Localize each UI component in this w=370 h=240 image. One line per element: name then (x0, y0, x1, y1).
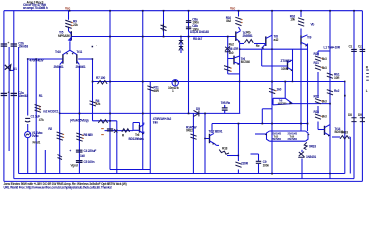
svg-text:D5: D5 (196, 107, 200, 111)
resistor R21 x193 (190, 134, 196, 139)
resistor R3 left collector (57, 132, 63, 140)
svg-text:R8 4k7: R8 4k7 (193, 37, 203, 41)
junction at 300,123 (300, 123, 302, 125)
junction at 271,173 (271, 173, 273, 175)
wire diode stub x181 (180, 37, 182, 54)
junction at 284,81 (284, 81, 286, 83)
svg-text:10R: 10R (334, 76, 340, 80)
wire x142.75 column (142, 11, 144, 170)
svg-text:68R: 68R (154, 89, 160, 93)
zener D2 on y113.4 (194, 110, 199, 116)
AC source squiggle (26, 133, 30, 135)
svg-text:(47uF/25Vbip): (47uF/25Vbip) (70, 118, 88, 122)
svg-text:MPSA56: MPSA56 (58, 34, 70, 38)
junction at 329,103 (329, 103, 331, 105)
resistor R10 y43.5 (244, 40, 253, 43)
wire x116.8 column (116, 121, 118, 174)
svg-text:an ampl 70.40dB h: an ampl 70.40dB h (23, 6, 48, 10)
junction at 142,10 (142, 10, 144, 12)
diode D4 output right (298, 152, 304, 158)
current source CCS mark (161, 24, 167, 31)
svg-text:Vb: Vb (311, 23, 315, 27)
svg-text:10m/63: 10m/63 (18, 45, 28, 49)
wire right collector / feedback leg (78, 66, 80, 174)
wire right base wire (78, 58, 92, 60)
junction at 142,81 (142, 81, 144, 83)
diode pair on x181 (179, 41, 183, 51)
diode D6 rail right2 (360, 117, 365, 122)
wire x318 resistor string (317, 51, 319, 56)
junction at 262,123 (262, 123, 264, 125)
junction at 59,113 (59, 113, 61, 115)
wire LTP tail (69, 41, 71, 50)
resistor R7 horizontal y82 (98, 81, 108, 85)
svg-text:0Vdc: 0Vdc (32, 134, 39, 138)
svg-text:D3,D4 1N4148: D3,D4 1N4148 (190, 30, 209, 34)
resistor R16 x318 lower (315, 99, 321, 104)
wire y108.8 stub (262, 108, 272, 110)
svg-text:R2: R2 (48, 127, 52, 131)
capacitor C11 x353 (351, 49, 357, 51)
wire rail 2 vertical (13, 11, 15, 179)
svg-text:R6 680: R6 680 (84, 133, 94, 137)
wire x238.4 down (237, 124, 239, 162)
transistor Tr6b x234 (234, 56, 240, 66)
transistor Q3 VAS x235.8 (236, 31, 241, 43)
svg-text:MJE350: MJE350 (278, 102, 287, 106)
resistor R6 horizontal y121 (98, 120, 107, 123)
svg-text:R22: R22 (314, 94, 320, 98)
junction at 109,10 (109, 10, 111, 12)
transistor Q2 LTP right (70, 50, 80, 64)
wire CCS column (163, 11, 165, 37)
wire input base wire (28, 58, 63, 60)
svg-text:a42: a42 (274, 38, 279, 42)
wire x150.25 column (149, 82, 151, 174)
wire y51 stub (318, 50, 330, 52)
capacitor C5 input coupling (25, 118, 30, 122)
svg-text:2N5401: 2N5401 (76, 65, 86, 69)
wire x227.7 diode-resistor column (227, 37, 229, 74)
wire cap leg B / ground left (18, 47, 20, 174)
junction at 35,58 (35, 58, 37, 60)
wire VAS collector column (238, 11, 240, 17)
capacitor C1 plates top (1, 44, 7, 46)
svg-text:10mA fc: 10mA fc (168, 86, 179, 90)
resistor R22 on x227.7 (224, 66, 231, 72)
svg-text:2N5401: 2N5401 (54, 65, 64, 69)
svg-text:Rc2: Rc2 (334, 89, 340, 93)
capacitor C9 pair lower (186, 27, 191, 29)
svg-text:Tr12 BD91: Tr12 BD91 (209, 130, 223, 134)
svg-text:R18: R18 (222, 146, 228, 150)
junction at 188,113 (188, 113, 190, 115)
junction at 238,155 (238, 155, 240, 157)
resistor R19 diag driver (219, 150, 229, 155)
resistor R15 x318 upper2 (315, 65, 321, 70)
AC source V1 circle (25, 132, 31, 138)
transistor Q5 x287.5 (285, 60, 293, 72)
svg-text:0R22: 0R22 (186, 129, 193, 133)
resistor R2 top Vcc (65, 20, 71, 28)
wire x353.2 column (353, 11, 355, 179)
capacitor C10 legs (224, 105, 226, 114)
svg-text:3k3: 3k3 (322, 115, 327, 119)
svg-text:220R: 220R (241, 161, 249, 165)
svg-text:10m/63: 10m/63 (18, 94, 28, 98)
wire D1 stub (9, 69, 14, 71)
wire bus B (14, 178, 354, 180)
capacitor C2 plates top (11, 44, 17, 46)
transistor Q7 big driver (273, 98, 293, 105)
junction at 204,138 (204, 138, 206, 140)
resistor R9 VAS collector (235, 17, 241, 25)
svg-text:L1 7uH+10R: L1 7uH+10R (324, 45, 341, 49)
wire top supply bus +V (4, 10, 363, 12)
svg-text:Tr10: Tr10 (55, 50, 61, 54)
junction at 92,58 (92, 58, 94, 60)
wire zener column (192, 113, 194, 173)
svg-text:D8: D8 (348, 113, 352, 117)
transistor Q11 driver x209 (205, 133, 216, 145)
junction at 238,123 (238, 123, 240, 125)
wire emitter down from Q2 / x239.6 long (239, 41, 241, 113)
resistor R4 feedback leg (76, 133, 82, 141)
junction at 109,113 (109, 113, 111, 115)
junction at 227,36 (227, 36, 229, 38)
svg-text:Tr11: Tr11 (77, 50, 83, 54)
svg-text:R7 100: R7 100 (96, 76, 106, 80)
resistor R18 emitter horizontal right (340, 136, 349, 139)
junction at 239,81 (239, 81, 241, 83)
wire VAS base column (92, 59, 94, 121)
wire x292.5 (292, 49, 294, 81)
wire x344.8 column (344, 82, 346, 174)
resistor R1 input bias (35, 105, 41, 113)
wire left collector (59, 66, 61, 174)
svg-text:D1: D1 (13, 67, 17, 71)
junction at 344,95 (344, 95, 346, 97)
wire x272 long column (271, 11, 273, 174)
junction at 109,120 (109, 120, 111, 122)
junction at 344,81 (344, 81, 346, 83)
wire left edge rail (3, 11, 5, 182)
svg-text:2SC5200: 2SC5200 (288, 137, 298, 141)
svg-text:1k0: 1k0 (80, 154, 85, 158)
junction at 271,81 (271, 81, 273, 83)
wire cap leg A (8, 47, 10, 151)
resistor R14 x318 upper (315, 56, 321, 61)
wire right edge rail (361, 11, 363, 182)
svg-text:Vgnd: Vgnd (71, 164, 78, 168)
svg-text:Tr9: Tr9 (307, 35, 312, 39)
capacitor C3 plates lower (1, 93, 7, 95)
svg-text:3k3: 3k3 (322, 66, 327, 70)
svg-text:Cz: Cz (349, 44, 353, 48)
wire mid bus A y81.5 (93, 81, 345, 83)
resistor R12 x301 (298, 18, 304, 26)
resistor R8 on x150 (147, 86, 153, 91)
junction at 271,10 (271, 10, 273, 12)
svg-text:Vcc: Vcc (230, 7, 235, 11)
svg-text:D9: D9 (358, 113, 362, 117)
transistor Q6 x301 (301, 35, 308, 47)
wire driver emitter diag chain (216, 144, 219, 146)
current source circle on y82 (172, 80, 178, 86)
wire cap pair column (188, 11, 190, 114)
svg-text:3k3: 3k3 (322, 57, 327, 61)
svg-text:URL World Free: hltp:ll www.av: URL World Free: hltp:ll www.avrfree.com.… (4, 186, 112, 190)
wire x205 column (204, 113, 206, 173)
wire feedback horizontal (93, 120, 117, 122)
junction at 109,81 (109, 81, 111, 83)
junction at 329,10 (329, 10, 331, 12)
capacitor C13 output node (256, 161, 261, 163)
svg-text:Vcc: Vcc (65, 7, 70, 11)
svg-text:22k: 22k (73, 23, 78, 27)
wire Q7 base drop (284, 82, 286, 99)
capacitor C14 on x110 (107, 129, 113, 131)
svg-text:1k0: 1k0 (229, 51, 234, 55)
junction at 271,123 (271, 123, 273, 125)
wire D4 drop (301, 159, 303, 179)
junction at 307,123 (307, 123, 309, 125)
wire input source column (27, 59, 29, 116)
capacitor C12 x362 (360, 49, 366, 51)
junction at 300,10 (300, 10, 302, 12)
wire y103.6 output wire (293, 103, 331, 105)
svg-text:ZTX653: ZTX653 (281, 59, 292, 63)
svg-text:TrB Ra: TrB Ra (221, 101, 231, 105)
junction at 163,10 (163, 10, 165, 12)
svg-text:C5 100n: C5 100n (84, 160, 95, 164)
junction at 239,48 (239, 48, 241, 50)
wire y49.2 rail (240, 48, 308, 50)
svg-text:Re2: Re2 (229, 42, 235, 46)
junction at 353,10 (353, 10, 355, 12)
capacitor C8 pair upper (186, 21, 191, 23)
svg-text:Re: Re (256, 44, 260, 48)
svg-text:.: . (96, 43, 97, 47)
svg-text:Rb: Rb (247, 30, 251, 34)
diode D5 rail right (351, 117, 356, 122)
capacitor C10 x225 (222, 108, 228, 110)
svg-text:R23: R23 (314, 110, 320, 114)
wire mid bus B y113.4 (60, 112, 241, 114)
transistor Q8 Q9 output pair cluster (265, 131, 310, 141)
wire y130.3 bias wire (105, 130, 134, 132)
resistor R27 on x330 (327, 90, 333, 95)
wire output node stub (251, 153, 259, 155)
junction at 292,81 (292, 81, 294, 83)
junction at 69,10 (69, 10, 71, 12)
resistor R11 x272 (269, 88, 275, 93)
junction at 109,36 (109, 36, 111, 38)
svg-text:1N5401: 1N5401 (306, 155, 316, 159)
wire x350.3 (349, 137, 351, 174)
capacitor C4 plates lower (11, 93, 17, 95)
svg-text:C4 220uF: C4 220uF (84, 149, 97, 153)
wire ground bus (19, 173, 345, 175)
svg-text:R21: R21 (314, 61, 320, 65)
wire Tr base y58.5 (228, 58, 234, 60)
transistor Tr1 top (69, 31, 76, 41)
svg-text:0R33: 0R33 (341, 130, 348, 134)
wire y129.5 base wire (318, 129, 323, 131)
wire y169.5 segment (110, 169, 150, 171)
junction at 79,113 (79, 113, 81, 115)
wire x330 column (329, 11, 331, 179)
junction at 238,10 (238, 10, 240, 12)
junction at 188,10 (188, 10, 190, 12)
wire bottom rail bus (4, 180, 363, 182)
transistor Q10 x324.5 (323, 125, 331, 137)
wire x307.5 rail (307, 44, 309, 132)
svg-text:R: R (122, 133, 125, 137)
svg-text:+: + (8, 41, 10, 45)
svg-text:100R: 100R (281, 67, 289, 71)
svg-text:R: R (366, 65, 369, 69)
svg-text:BC546: BC546 (241, 60, 250, 64)
capacitor C7 feedback (76, 161, 83, 163)
svg-text:R1: R1 (39, 94, 43, 98)
svg-text:22k: 22k (96, 102, 101, 106)
svg-text:+: + (69, 149, 71, 153)
junction at 163,36 (163, 36, 165, 38)
junction at 271,48 (271, 48, 273, 50)
wire driver collector rail (212, 123, 308, 125)
diode marks x114-117 (114, 129, 117, 133)
blob x59 lower (58, 155, 63, 160)
junction at 142,113 (142, 113, 144, 115)
junction at 92,46 (92, 46, 94, 48)
svg-text:0R33: 0R33 (309, 144, 316, 148)
junction at 188,36 (188, 36, 190, 38)
junction at 27,58 (27, 58, 29, 60)
wire output base stub left (255, 133, 267, 135)
svg-text:R6 47R: R6 47R (229, 47, 240, 51)
resistor R25 bias left (122, 129, 130, 132)
wire x110 column (109, 11, 111, 170)
svg-text:Cz: Cz (358, 44, 362, 48)
svg-text:1k0: 1k0 (277, 88, 282, 92)
svg-text:100n: 100n (263, 164, 270, 168)
wire emitter R wire right (332, 136, 340, 138)
svg-text:10k: 10k (290, 18, 295, 22)
svg-text:2SC5200: 2SC5200 (272, 137, 282, 141)
svg-text:R20: R20 (314, 52, 320, 56)
junction at 92,81 (92, 81, 94, 83)
svg-text:L: L (366, 89, 368, 93)
resistor R17 x318 lower2 (315, 114, 321, 119)
resistor orange tips (39, 20, 323, 139)
transistor Q12 bias cluster (133, 123, 144, 135)
resistor R20 x238 (235, 162, 241, 167)
wire y66 stub (261, 49, 263, 66)
wire bus2 base rail y36.5 (73, 36, 236, 38)
svg-text:3k3: 3k3 (322, 99, 327, 103)
svg-text:470nF/63V: 470nF/63V (30, 59, 45, 63)
junction at 142,36 (142, 36, 144, 38)
wire bias resistor column (35, 59, 37, 174)
diode D1 bridge (5, 65, 11, 71)
svg-text:m2 AC/DC1: m2 AC/DC1 (43, 110, 59, 114)
svg-text:Fred1: Fred1 (33, 141, 41, 145)
svg-text:47k: 47k (39, 118, 44, 122)
junction at 204,113 (204, 113, 206, 115)
svg-text:BD139/bias: BD139/bias (129, 137, 145, 141)
transistor Q1 LTP left (60, 50, 70, 64)
junction at 329,173 (329, 173, 331, 175)
diode D3 on x227.7 (225, 46, 231, 51)
svg-text:2N5551: 2N5551 (243, 34, 253, 38)
wire x45.3 ground stub (44, 150, 46, 174)
svg-text:trim: trim (153, 120, 159, 124)
svg-text:8k2: 8k2 (226, 19, 231, 23)
transistor Q4 x266 (261, 35, 272, 49)
wire Vcc resistor column top (68, 11, 70, 20)
junction at 180,36 (180, 36, 182, 38)
load marks right edge (366, 70, 369, 80)
resistor R13 output emitter right (304, 142, 307, 149)
resistor R5 VAS base col (90, 101, 96, 106)
capacitor C6 feedback (76, 150, 83, 152)
wire x301 column (300, 11, 302, 17)
resistor R26 on x330 (327, 73, 333, 78)
